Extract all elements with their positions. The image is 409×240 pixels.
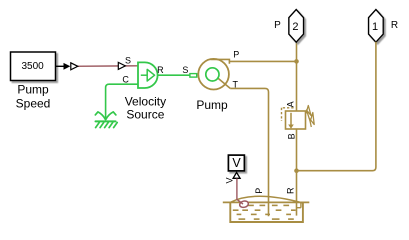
tank V sensor circle — [239, 200, 249, 208]
wire C of Velocity Source to ground — [106, 84, 138, 119]
tank liquid dashes — [233, 205, 296, 219]
svg-text:1: 1 — [372, 21, 378, 33]
node junction bottom — [294, 168, 299, 173]
svg-text:R: R — [157, 65, 164, 75]
label Velocity Source — [125, 95, 166, 122]
svg-text:R: R — [286, 187, 296, 194]
svg-text:P: P — [254, 188, 264, 194]
tank reservoir rim — [223, 201, 309, 203]
svg-text:C: C — [122, 75, 129, 85]
relief valve spring — [306, 106, 314, 128]
svg-text:Pump: Pump — [17, 83, 49, 97]
svg-text:V: V — [232, 156, 241, 170]
svg-text:Velocity: Velocity — [125, 95, 166, 109]
svg-text:R: R — [391, 20, 398, 31]
wire valve B down to tank R pipe — [296, 129, 298, 216]
svg-text:B: B — [286, 133, 296, 139]
svg-text:2: 2 — [292, 21, 298, 33]
pressure relief valve body — [286, 111, 306, 129]
node junction top — [294, 59, 299, 64]
wire port 2 down through valve to tank R — [296, 42, 298, 111]
V block input triangle — [233, 172, 240, 178]
wire R to pump S (mechanical green) — [158, 74, 190, 76]
relief valve pilot dashed line — [282, 108, 294, 121]
converter triangle 1 — [71, 63, 78, 70]
svg-text:S: S — [182, 65, 188, 75]
wire pump T to tank P pipe — [230, 88, 268, 216]
svg-text:S: S — [125, 55, 131, 65]
wire physical signal tank V to display — [237, 179, 243, 205]
connection port 2 (P) — [289, 10, 304, 43]
svg-text:P: P — [274, 20, 281, 31]
ground mechanical rotational reference — [95, 112, 117, 128]
svg-text:P: P — [233, 50, 239, 60]
wire pump P to node — [229, 60, 296, 62]
converter triangle 2 — [118, 62, 125, 69]
constant block Pump Speed (3500) — [11, 52, 56, 81]
svg-text:Speed: Speed — [16, 97, 51, 111]
svg-text:3500: 3500 — [21, 61, 44, 72]
svg-text:Pump: Pump — [196, 98, 228, 112]
svg-text:Source: Source — [126, 108, 164, 122]
wire physical signal to Velocity Source S — [71, 65, 139, 68]
op Velocity Source block — [138, 62, 158, 88]
tank R pipe notch — [297, 202, 301, 207]
tank container walls — [230, 203, 303, 222]
connection port 1 (R) — [369, 10, 384, 43]
pump U1 centrifugal body — [198, 59, 230, 90]
tank liquid surface arc — [231, 196, 303, 203]
label Pump Speed — [16, 83, 51, 111]
pump S port stub — [190, 74, 197, 78]
wire constant output (Simulink signal) — [56, 63, 71, 70]
svg-text:A: A — [286, 101, 296, 107]
wire port 1 down to node bottom — [297, 42, 376, 171]
V display block — [228, 155, 244, 171]
